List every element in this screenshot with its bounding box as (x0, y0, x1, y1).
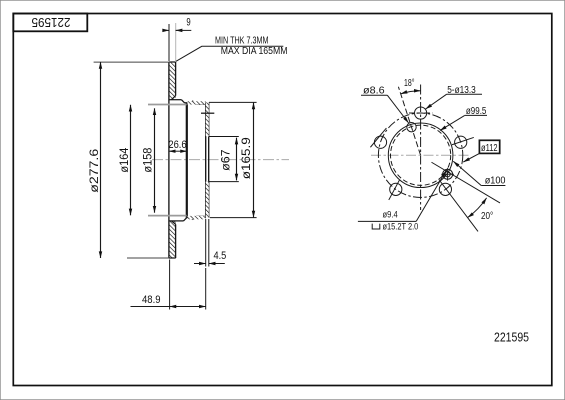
bolt hole right (455, 136, 467, 148)
dim o277.6 (94, 62, 171, 258)
bolt hole top (415, 107, 427, 119)
hub flange wall left line (205, 102, 207, 218)
svg-text:4.5: 4.5 (214, 250, 227, 262)
label 5-o13.3 (426, 94, 482, 109)
20 deg radial line upper (432, 162, 501, 203)
o277.6 ext top (94, 61, 171, 63)
connect chamfer to rim face top (185, 102, 188, 104)
svg-text:221595: 221595 (494, 330, 529, 345)
svg-text:48.9: 48.9 (142, 294, 161, 306)
o112 leader (463, 153, 479, 162)
disc inner edge top (169, 99, 181, 101)
drum wall bottom edge with peak (187, 216, 206, 219)
counterbore cross ticks (441, 173, 454, 175)
disc ring hatch top (169, 62, 175, 100)
drum wall top edge with peak (187, 101, 206, 104)
label o112 boxed (479, 140, 499, 153)
disc OD top edge (169, 61, 176, 63)
hub flange wall right line (208, 102, 210, 218)
20 deg radial line lower (439, 179, 478, 231)
svg-text:ø99.5: ø99.5 (466, 106, 487, 117)
48.9 dim line (131, 306, 170, 308)
o164 dim line (130, 105, 132, 216)
svg-text:ø277.6: ø277.6 (89, 149, 101, 193)
vertical centerline (420, 84, 422, 210)
bolt circle dash-dot (378, 113, 462, 197)
48.9 ext lines (169, 260, 171, 310)
bolt hole cross tick top (201, 112, 214, 114)
label o99.5 (440, 115, 487, 130)
bolt hole lower-right (439, 183, 451, 195)
label o100 (453, 161, 505, 185)
o164 gray ext bottom (148, 215, 187, 217)
bolt hole left (374, 136, 386, 148)
disc right face line (175, 62, 177, 96)
drum rim face (thick vertical) (186, 103, 188, 218)
disc inner chamfer top (172, 96, 176, 100)
svg-text:20°: 20° (481, 211, 493, 222)
dim 9 extension lines (168, 24, 170, 61)
center bore bottom line (209, 181, 239, 183)
o8.6 small hole (407, 122, 416, 131)
dashed radial at 108deg (398, 87, 420, 156)
drum circle o99.5 solid (388, 123, 453, 188)
o165.9 ext top (209, 101, 257, 103)
svg-text:ø8.6: ø8.6 (363, 85, 385, 97)
hole o9.4 (445, 172, 450, 177)
svg-text:ø100: ø100 (485, 174, 506, 186)
svg-text:MIN THK 7.3MM: MIN THK 7.3MM (215, 36, 269, 47)
horizontal centerline (371, 154, 470, 156)
disc inner chamfer bottom (172, 221, 176, 225)
drum wall hatch bottom (188, 216, 206, 219)
center bore top line (209, 136, 239, 138)
hub flange wall hatch upper (206, 102, 209, 136)
inner circle dashed (391, 125, 451, 185)
svg-text:ø165.9: ø165.9 (241, 137, 253, 179)
svg-text:ø15.2T 2.0: ø15.2T 2.0 (383, 221, 419, 232)
horizontal tick through top hole (409, 112, 433, 114)
svg-text:ø164: ø164 (119, 147, 131, 173)
svg-text:5-ø13.3: 5-ø13.3 (447, 85, 476, 96)
18 deg arc (401, 91, 421, 94)
4.5 ext lines (205, 219, 207, 267)
dim 9 line with outside arrows (163, 29, 169, 31)
dim o164 (131, 105, 187, 216)
bolt hole lower-left (390, 183, 402, 195)
o277.6 dim line (100, 62, 102, 258)
dim 4.5 (194, 219, 225, 267)
svg-text:9: 9 (186, 16, 190, 28)
svg-text:26.6: 26.6 (168, 139, 186, 151)
dim 48.9 (131, 260, 206, 310)
tick through left hole (370, 128, 386, 147)
svg-text:ø112: ø112 (481, 142, 498, 154)
o165.9 dim line (253, 103, 255, 218)
disc OD bottom edge (169, 257, 176, 259)
4.5 dim line with outside arrows (199, 263, 206, 265)
radial tick right hole (452, 137, 474, 144)
counterbore hole o15.2 (443, 169, 453, 179)
title box top-left (13, 14, 87, 32)
svg-text:18°: 18° (404, 78, 415, 89)
20 deg arc (468, 198, 487, 218)
disc inner edge bottom (169, 220, 184, 222)
step chamfer top (181, 100, 184, 103)
drum wall hatch top (188, 101, 206, 104)
min thk leader (176, 46, 283, 61)
counterbore symbol (372, 224, 380, 229)
disc ring hatch bottom (169, 221, 175, 258)
step chamfer bottom (184, 218, 187, 221)
dim o165.9 (209, 102, 257, 217)
disc right face line bottom (175, 224, 177, 258)
svg-text:ø158: ø158 (142, 148, 154, 173)
dim 26.6 (169, 150, 187, 152)
dim o158 (154, 108, 156, 212)
label o8.6 (361, 95, 409, 123)
svg-text:221595: 221595 (32, 15, 71, 30)
svg-text:ø67: ø67 (221, 149, 233, 171)
dim o67 (236, 138, 238, 181)
svg-text:ø9.4: ø9.4 (383, 209, 398, 220)
o277.6 ext bottom (127, 257, 169, 259)
o164 gray ext top (148, 104, 187, 106)
centerline left view (152, 159, 289, 161)
radial tick lower-left hole (389, 180, 400, 200)
hub flange wall hatch lower (206, 182, 209, 218)
disc left face line (168, 62, 170, 258)
o165.9 ext bottom (210, 217, 257, 219)
label o9.4 with counterbore note (358, 171, 446, 230)
svg-text:MAX DIA 165MM: MAX DIA 165MM (221, 46, 288, 57)
